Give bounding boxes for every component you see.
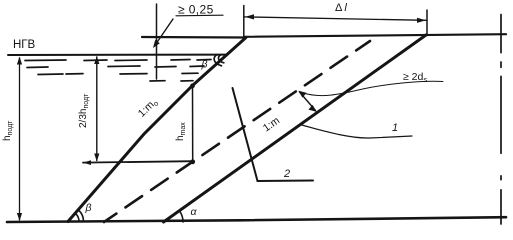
svg-text:hmax: hmax bbox=[175, 122, 187, 141]
svg-text:1:m: 1:m bbox=[261, 114, 282, 134]
arrow down h_pod bbox=[17, 213, 22, 221]
angle beta top arcs bbox=[214, 55, 224, 66]
svg-text:1:mo: 1:mo bbox=[136, 96, 161, 120]
extension line left bbox=[156, 4, 158, 79]
gap arrow between lines bbox=[300, 92, 316, 111]
extension line mid bbox=[243, 6, 245, 37]
dashed revetment line bbox=[104, 41, 370, 222]
extension line right bbox=[426, 10, 428, 36]
dimension 2/3h vertical bbox=[96, 57, 98, 161]
angle alpha arc bbox=[179, 211, 183, 222]
svg-text:≥ 0,25: ≥ 0,25 bbox=[178, 3, 214, 17]
leader of label 1 bbox=[300, 125, 412, 139]
svg-text:β: β bbox=[201, 59, 208, 71]
leader 0,25 bbox=[155, 19, 174, 46]
node bottom h_max bbox=[190, 159, 195, 164]
reference line at 2/3h depth bbox=[83, 161, 193, 162]
centerline axis bbox=[500, 15, 502, 225]
water line NGV bbox=[8, 54, 226, 56]
berm line bbox=[142, 36, 246, 39]
svg-text:β: β bbox=[85, 202, 92, 214]
dimension h_max vertical bbox=[192, 86, 194, 162]
slope 1:m0 bbox=[68, 38, 246, 222]
arrow up h_pod bbox=[17, 57, 22, 65]
leader 2d bbox=[302, 81, 443, 95]
svg-text:НГВ: НГВ bbox=[13, 39, 36, 51]
svg-text:Δl: Δl bbox=[335, 2, 347, 14]
svg-text:hподт: hподт bbox=[2, 120, 14, 141]
svg-text:2/3hподт: 2/3hподт bbox=[78, 93, 90, 128]
crest line bbox=[244, 34, 506, 37]
dimension line delta-l bbox=[244, 17, 427, 20]
angle beta bottom arcs bbox=[75, 210, 83, 222]
water shading dashes bbox=[25, 60, 211, 82]
svg-text:2: 2 bbox=[283, 168, 290, 180]
leader of label 2 bbox=[233, 88, 314, 181]
svg-text:1: 1 bbox=[392, 122, 398, 134]
slope 1:m bbox=[164, 35, 427, 222]
svg-text:α: α bbox=[191, 206, 198, 218]
node top h_max bbox=[190, 83, 195, 88]
dimension h_pod vertical bbox=[19, 58, 21, 220]
ground line bbox=[7, 217, 506, 222]
